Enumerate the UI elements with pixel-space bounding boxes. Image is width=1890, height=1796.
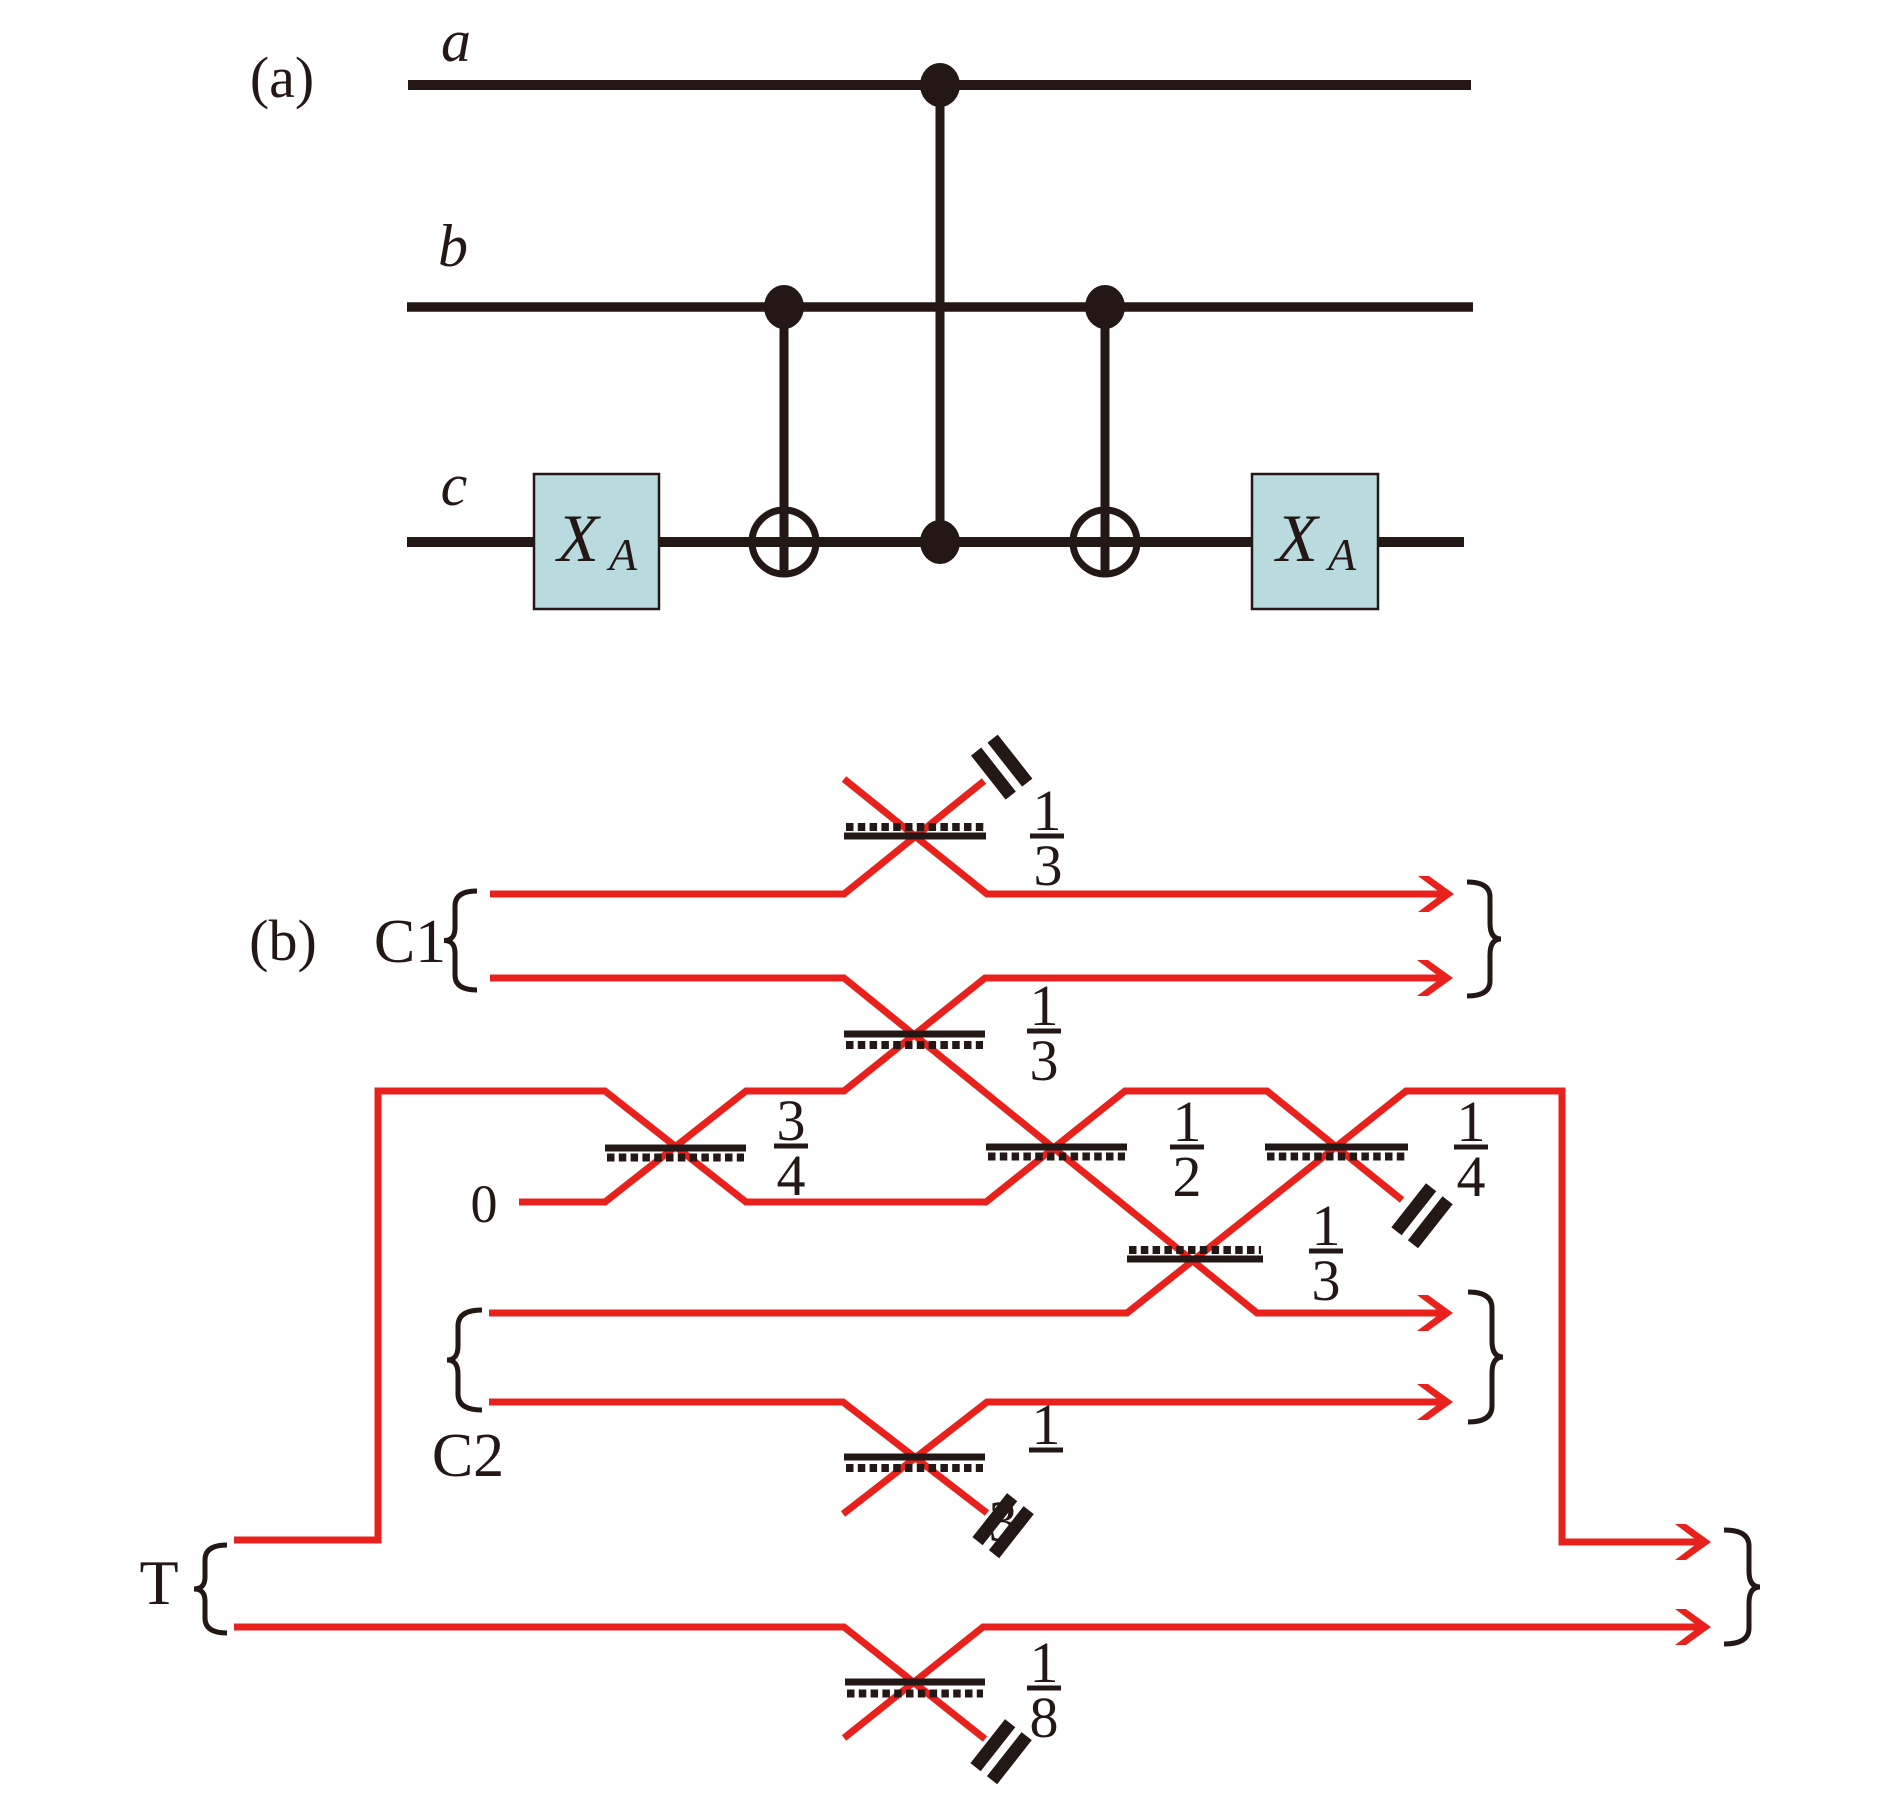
mirror M1 at BS1	[971, 735, 1032, 800]
gate box XA right	[1252, 474, 1378, 609]
beam C2 lower output	[843, 1402, 1442, 1514]
beam ancilla 0	[519, 978, 1442, 1202]
svg-text:0: 0	[471, 1174, 498, 1234]
mirror M2 at BS5	[1391, 1183, 1452, 1248]
svg-text:(a): (a)	[250, 45, 314, 110]
svg-text:b: b	[438, 213, 468, 279]
svg-text:X: X	[554, 500, 601, 576]
brace C1 right	[1467, 882, 1501, 996]
control dot b2	[1085, 285, 1125, 329]
BS2 1/3 solid plate	[844, 1031, 985, 1038]
qubit wire c	[407, 537, 1464, 547]
brace C2 right	[1468, 1292, 1503, 1422]
svg-text:4: 4	[1457, 1144, 1486, 1209]
BS7 C2 solid plate	[844, 1454, 985, 1461]
beam C1 upper output	[844, 779, 1443, 894]
BS3 dotted face	[607, 1154, 744, 1162]
arrow C2 lower	[1417, 1384, 1453, 1420]
brace T left	[194, 1545, 227, 1633]
svg-text:T: T	[139, 1547, 178, 1618]
fraction 1/3 at BS7 (denominator hidden by mirror)	[989, 1392, 1064, 1554]
CNOT target 1	[752, 510, 816, 574]
fraction 1/3 at BS6	[1309, 1193, 1343, 1313]
svg-text:C1: C1	[374, 908, 446, 976]
qubit wire b	[407, 302, 1473, 312]
BS7 dotted face	[846, 1464, 983, 1472]
brace C2 left	[447, 1310, 482, 1410]
svg-text:c: c	[441, 452, 468, 518]
svg-text:8: 8	[1030, 1685, 1059, 1750]
svg-text:3: 3	[1034, 833, 1063, 898]
BS4 1/2 solid plate	[986, 1144, 1127, 1151]
BS5 1/4 solid plate	[1265, 1144, 1408, 1151]
BS5 dotted face	[1267, 1153, 1406, 1161]
fraction 3/4 at BS3	[774, 1088, 808, 1208]
CNOT target 2	[1073, 510, 1137, 574]
BS6 1/3 solid plate	[1127, 1256, 1263, 1263]
svg-text:A: A	[606, 529, 638, 580]
fraction 1/8 at BS8	[1027, 1630, 1061, 1750]
gate box XA left	[534, 474, 659, 609]
control dot b1	[764, 285, 804, 329]
beam T lower input	[234, 1627, 985, 1739]
BS8 dotted face	[847, 1690, 983, 1698]
fraction 1/3 at BS2	[1027, 973, 1061, 1093]
svg-text:3: 3	[1312, 1248, 1341, 1313]
fraction 1/2 at BS4	[1170, 1089, 1204, 1209]
BS2 dotted face	[846, 1041, 983, 1049]
arrow C1 lower	[1417, 960, 1453, 996]
BS4 dotted face	[988, 1153, 1125, 1161]
BS8 1/8 solid plate	[845, 1679, 985, 1686]
svg-text:C2: C2	[432, 1422, 504, 1490]
svg-text:X: X	[1273, 500, 1320, 576]
wire CNOT1 control-target vertical	[780, 307, 789, 574]
svg-text:3: 3	[1030, 1028, 1059, 1093]
qubit wire a	[408, 80, 1471, 90]
svg-text:(b): (b)	[249, 908, 317, 973]
svg-text:A: A	[1325, 529, 1357, 580]
beam T upper	[234, 1091, 1402, 1540]
beam C2 lower input	[489, 1402, 987, 1513]
beam C1 lower input	[490, 978, 1442, 1313]
control dot on a	[920, 63, 960, 107]
BS1 dotted face	[846, 823, 984, 831]
beam T lower output	[844, 1627, 1700, 1738]
svg-text:a: a	[441, 8, 471, 74]
beam C2 upper	[489, 1091, 1700, 1542]
svg-text:4: 4	[777, 1143, 806, 1208]
fraction 1/3 at BS1	[1030, 778, 1064, 898]
BS6 dotted face	[1129, 1246, 1261, 1254]
beam C1 upper input	[490, 781, 984, 894]
brace C1 left	[444, 891, 477, 990]
svg-text:2: 2	[1173, 1144, 1202, 1209]
brace T right	[1724, 1530, 1760, 1644]
arrow C1 upper	[1418, 876, 1454, 912]
BS3 3/4 solid plate	[605, 1145, 746, 1152]
arrow T lower	[1675, 1609, 1711, 1645]
fraction 1/4 at BS5	[1454, 1089, 1488, 1209]
arrow T upper	[1675, 1524, 1711, 1560]
control dot on c	[920, 520, 960, 564]
wire CZ control vertical	[936, 85, 945, 542]
svg-text:1: 1	[1032, 1392, 1061, 1457]
wire CNOT2 control-target vertical	[1101, 307, 1110, 574]
mirror M3 at BS7	[972, 1493, 1033, 1558]
mirror M4 at BS8	[970, 1719, 1031, 1784]
BS1 1/3 solid plate	[844, 833, 986, 840]
arrow C2 upper	[1417, 1295, 1453, 1331]
